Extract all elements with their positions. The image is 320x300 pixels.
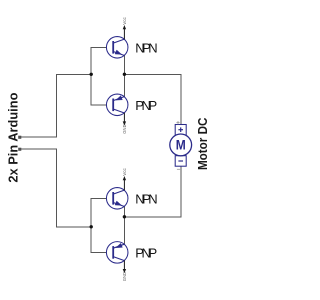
svg-text:NPN: NPN bbox=[135, 40, 158, 55]
svg-text:PNP: PNP bbox=[135, 245, 157, 260]
svg-text:2x Pin Arduino: 2x Pin Arduino bbox=[6, 93, 21, 183]
svg-text:M: M bbox=[176, 138, 186, 153]
svg-text:NPN: NPN bbox=[135, 191, 158, 206]
svg-text:PNP: PNP bbox=[135, 98, 157, 113]
svg-text:Motor DC: Motor DC bbox=[195, 117, 210, 170]
